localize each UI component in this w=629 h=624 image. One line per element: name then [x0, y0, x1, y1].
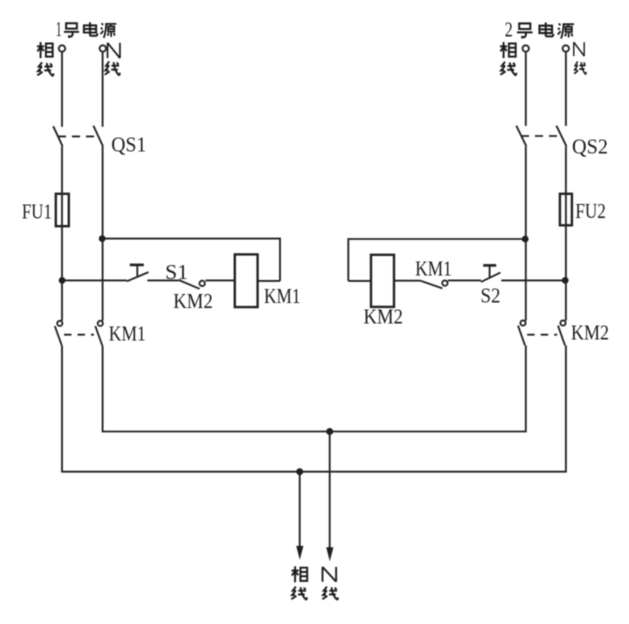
terminal left N — [100, 45, 106, 51]
contact KM2 main right pole — [558, 320, 566, 345]
node left phase control tap — [59, 277, 66, 284]
node bottom bus phase out — [296, 468, 303, 475]
svg-text:KM2: KM2 — [173, 289, 213, 313]
wire L1 QS1 to FU1 — [61, 146, 63, 194]
svg-text:FU1: FU1 — [22, 200, 52, 224]
label left N线 — [105, 43, 120, 76]
wire R1 QS2 to KM2 main — [525, 146, 527, 321]
wire S2 to right N line — [501, 279, 566, 281]
wire left control top link — [103, 239, 280, 281]
KM1 main linkage dashes — [64, 334, 94, 336]
wire KM1 coil right lead — [258, 280, 280, 282]
wire KM1 aux to S2 — [448, 279, 481, 281]
contact KM1 main left pole — [55, 321, 63, 346]
coil KM1 — [235, 254, 258, 307]
label 2号电源 — [505, 18, 574, 42]
fuse FU1 — [56, 194, 69, 226]
contact KM1 main right pole — [95, 321, 103, 346]
wire R2 FU2 to KM2 main — [565, 225, 567, 320]
wire L2 QS1 to KM1 main — [102, 146, 104, 320]
terminal right phase — [523, 45, 529, 51]
svg-text:1: 1 — [56, 17, 62, 41]
contact KM2 aux — [179, 280, 205, 289]
terminal left phase — [59, 45, 65, 51]
contact KM1 aux — [421, 280, 448, 288]
svg-text:KM1: KM1 — [109, 321, 146, 345]
node right N control tap — [562, 277, 569, 284]
wire R2 top — [565, 52, 567, 126]
button S2 — [481, 265, 500, 282]
wire KM2 coil left lead — [348, 280, 371, 282]
KM2 main linkage dashes — [527, 334, 557, 336]
svg-text:KM1: KM1 — [415, 257, 452, 281]
terminal right N — [563, 45, 569, 51]
label right 相线 — [500, 42, 516, 76]
wire output N arrow — [326, 432, 333, 562]
wire left phase bottom bus — [62, 345, 566, 471]
svg-text:FU2: FU2 — [575, 199, 606, 223]
wire output phase arrow — [296, 472, 303, 560]
svg-text:2: 2 — [505, 18, 513, 42]
switch QS1 — [53, 126, 103, 147]
node left N control tap — [99, 235, 106, 242]
label left 相线 — [37, 42, 53, 76]
wire KM2 aux to KM1 coil — [206, 279, 235, 281]
svg-text:KM2: KM2 — [364, 305, 403, 329]
wire L1 FU1 to KM1 main — [61, 226, 63, 320]
fuse FU2 — [560, 194, 572, 226]
coil KM2 — [371, 255, 394, 307]
label bottom N线 — [322, 567, 338, 600]
switch QS2 — [516, 126, 566, 147]
svg-text:QS1: QS1 — [111, 132, 146, 156]
wire R1 top — [525, 52, 527, 126]
wire L2 top — [102, 52, 104, 127]
node right phase control tap — [522, 236, 529, 243]
wire L1 top — [61, 52, 63, 127]
wire left control junction to S1 — [62, 279, 127, 281]
svg-text:QS2: QS2 — [572, 134, 608, 158]
wire KM2 coil to KM1 aux — [394, 280, 421, 282]
wire left N upper bus — [103, 345, 526, 431]
contact KM2 main left pole — [518, 320, 526, 345]
svg-text:KM1: KM1 — [264, 284, 301, 308]
label bottom 相线 — [291, 566, 307, 600]
svg-text:KM2: KM2 — [571, 320, 609, 344]
wire S1 to KM2 aux — [147, 279, 178, 281]
label right N线 — [574, 42, 586, 74]
svg-text:S1: S1 — [165, 260, 188, 284]
wire R2 QS2 to FU2 — [565, 146, 567, 194]
node upper bus N out — [326, 428, 333, 435]
svg-text:S2: S2 — [481, 284, 501, 308]
wire right control top link — [348, 239, 525, 281]
button S1 — [127, 265, 149, 281]
label 1号电源 — [56, 17, 117, 41]
